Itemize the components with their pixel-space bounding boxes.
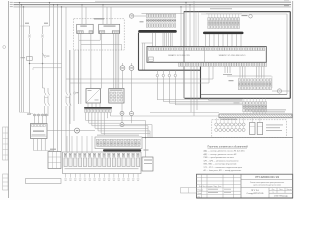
svg-text:А1 — блок реле; ШУ — шкаф упра: А1 — блок реле; ШУ — шкаф управления (204, 169, 242, 172)
svg-text:Разраб.: Разраб. (198, 190, 204, 192)
svg-text:SIMATIC S7-1200 CPU: SIMATIC S7-1200 CPU (168, 54, 190, 57)
svg-text:СПбГУПТД каф.: СПбГУПТД каф. (274, 194, 289, 197)
svg-text:1: 1 (273, 192, 274, 194)
svg-text:Пров.: Пров. (198, 193, 203, 195)
svg-text:SIMATIC S7-1200 SM DI/DO: SIMATIC S7-1200 SM DI/DO (219, 54, 246, 57)
svg-text:XT1…XT4 — клеммные соединители: XT1…XT4 — клеммные соединители щита (204, 167, 244, 169)
svg-text:QF1…QF6 — автоматич. выключате: QF1…QF6 — автоматич. выключатели (204, 160, 239, 162)
svg-text:Перечень элементов и обозначен: Перечень элементов и обозначений (208, 145, 249, 148)
svg-text:Листов: Листов (286, 189, 291, 191)
svg-text:АД2 — асинхр. двигатель насоса: АД2 — асинхр. двигатель насоса Н2 (204, 153, 237, 156)
svg-text:ЛТУ.420000.001 Э3: ЛТУ.420000.001 Э3 (255, 175, 279, 179)
svg-text:Лист: Лист (279, 189, 283, 191)
svg-text:ПГУ 2.0: ПГУ 2.0 (251, 190, 260, 192)
svg-text:ПЧВ — преобразователь частоты: ПЧВ — преобразователь частоты (204, 157, 235, 159)
svg-text:щита автоматизации установки: щита автоматизации установки (253, 184, 281, 186)
svg-text:Лит: Лит (272, 189, 275, 191)
svg-text:АД1 — асинхр. двигатель насоса: АД1 — асинхр. двигатель насоса Н1 (5,5 к… (204, 150, 245, 153)
svg-text:Стенд ИРУ-ПОФ: Стенд ИРУ-ПОФ (247, 192, 264, 195)
svg-text:КМ1, КМ2 — контакторы (пускате: КМ1, КМ2 — контакторы (пускатели) (204, 164, 237, 166)
